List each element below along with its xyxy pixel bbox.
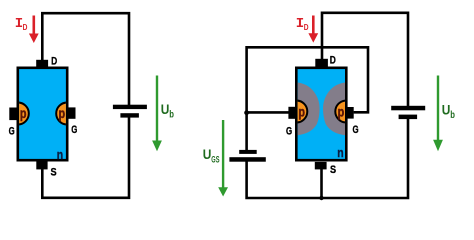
svg-text:U: U [161,101,170,117]
wire: right battery minus to bottom loop [247,118,408,198]
junction dot source node [319,196,323,200]
label U_b right [442,102,455,121]
svg-text:S: S [50,166,56,178]
p-region left gate (right JFET) [285,101,307,123]
wire: right source to bottom loop [320,169,323,198]
svg-text:b: b [169,109,174,121]
terminal G right (left JFET) [69,107,76,118]
terminal S (left JFET) [36,161,47,169]
svg-text:p: p [298,104,305,119]
green arrow U_b right [433,76,443,152]
wire: right drain to battery plus (top loop) [322,13,408,107]
terminal G left (left JFET) [9,108,16,121]
terminal G right (right JFET) [347,107,354,119]
label I_D left drain current [15,16,28,32]
svg-text:D: D [51,55,57,67]
battery U_GS: long plate (bottom) [229,157,265,162]
label U_GS [203,146,220,164]
svg-text:n: n [337,145,343,160]
svg-text:n: n [57,147,63,162]
battery U_b left: long plate [113,105,147,109]
depletion region right (gray) [323,83,345,136]
JFET body right: n-channel [296,68,346,160]
terminal G left (right JFET) [288,107,295,119]
wire: junction to left gate [247,111,289,114]
svg-text:p: p [338,104,345,119]
svg-text:p: p [59,106,66,121]
green arrow U_GS [218,120,228,197]
svg-text:G: G [71,124,77,136]
terminal D (right JFET) [315,59,328,67]
p-region left gate (left JFET) [7,103,29,125]
svg-text:D: D [304,23,309,32]
terminal S (right JFET) [315,162,327,170]
terminal D (left JFET) [36,60,48,67]
p-region right gate (left JFET) [56,103,78,125]
svg-text:S: S [330,164,336,176]
arrow I_D left [29,16,39,44]
depletion region left (gray) [298,83,320,136]
svg-text:GS: GS [211,154,219,164]
battery U_b left: short plate [120,113,138,117]
p-region right gate (right JFET) [335,101,357,123]
label U_b left [161,101,174,120]
wire: left drain to battery plus (top loop) [42,13,129,105]
svg-text:D: D [23,23,28,32]
battery U_b right: short plate [399,115,418,120]
svg-text:G: G [286,126,292,138]
battery U_GS: short plate (top) [239,150,257,154]
svg-text:G: G [352,124,358,136]
svg-text:D: D [330,55,336,67]
junction dot gate node [244,110,249,115]
wire: left battery minus to source (bottom loop) [42,117,129,198]
JFET body left: n-channel [18,68,67,160]
svg-text:U: U [203,146,212,162]
svg-text:G: G [9,125,15,137]
label I_D right drain current [296,16,309,32]
battery U_b right: long plate [391,106,425,111]
green arrow U_b left [152,76,162,152]
arrow I_D right [308,16,318,43]
svg-text:b: b [450,109,455,121]
svg-text:U: U [442,102,451,118]
svg-text:p: p [20,106,27,121]
wire: gate branch from drain node to right gate [247,47,368,150]
